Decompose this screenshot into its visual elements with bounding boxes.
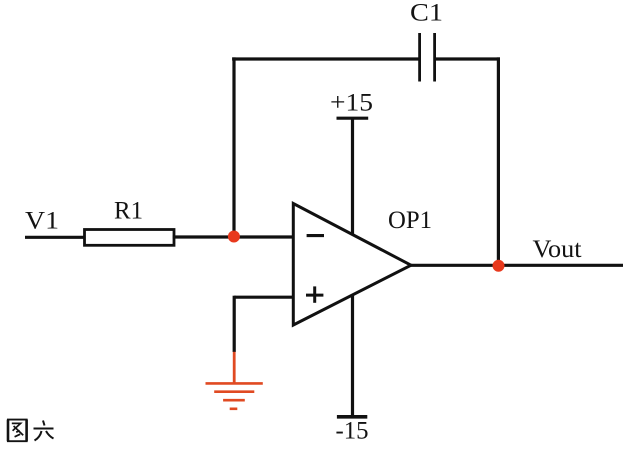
op-amp U1 triangle: [293, 204, 411, 326]
wire C1 to right vertical: [435, 57, 500, 60]
wire feedback vertical right: [497, 57, 500, 266]
wire +15 to op-amp top: [351, 118, 354, 235]
svg-text:-15: -15: [336, 418, 369, 445]
op-amp plus sign: [306, 286, 323, 302]
node junction inverting input: [228, 231, 240, 243]
svg-text:R1: R1: [114, 198, 143, 225]
capacitor C1: [420, 33, 435, 82]
wire noninverting input horizontal: [234, 296, 294, 299]
svg-text:V1: V1: [25, 207, 59, 234]
node junction output: [493, 260, 505, 272]
wire R1 to inverting input: [173, 235, 294, 238]
wire feedback top left to C1: [232, 57, 420, 60]
svg-text:OP1: OP1: [388, 207, 432, 234]
resistor R1: [85, 230, 175, 246]
label figure caption 六: [34, 421, 54, 441]
svg-text:Vout: Vout: [533, 236, 582, 263]
wire noninverting input vertical: [233, 296, 236, 352]
op-amp minus sign: [307, 234, 324, 237]
svg-text:+15: +15: [330, 90, 373, 117]
power -15 bar: [337, 415, 367, 419]
wire op-amp bottom to -15: [351, 295, 354, 417]
label figure caption 图: [7, 420, 28, 442]
svg-text:C1: C1: [410, 0, 443, 27]
wire feedback vertical left: [232, 57, 235, 237]
wire ground stem red: [233, 352, 236, 384]
wire input V1 to R1: [25, 236, 87, 239]
ground: [206, 383, 263, 408]
power +15 bar: [337, 117, 369, 120]
wire output: [408, 264, 623, 267]
